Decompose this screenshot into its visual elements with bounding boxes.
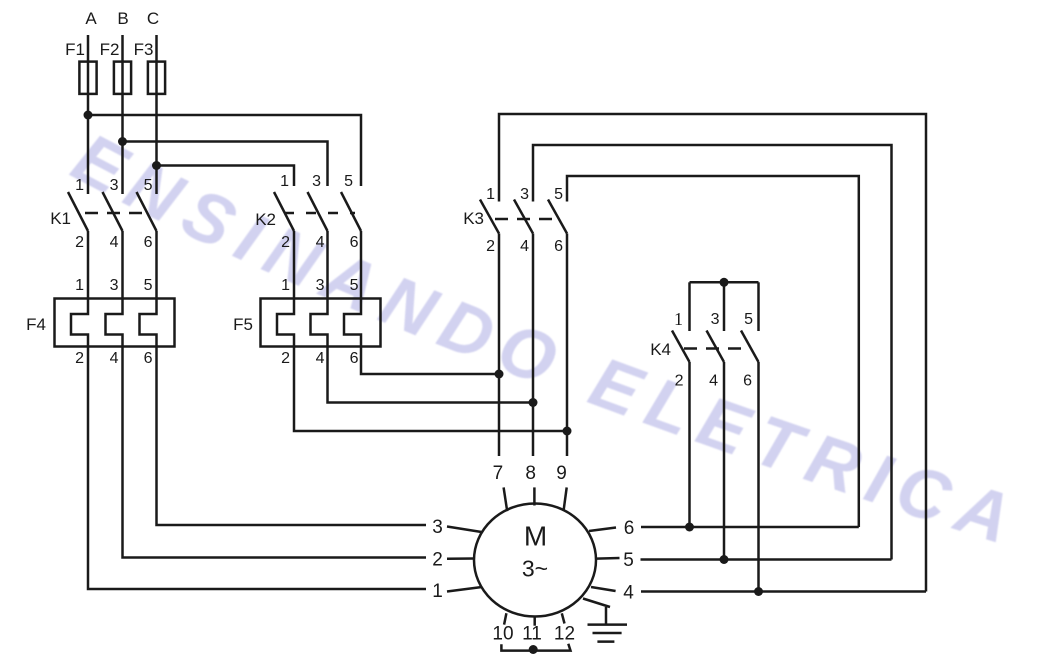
svg-text:F2: F2 — [100, 40, 120, 59]
svg-text:5: 5 — [144, 277, 153, 294]
svg-text:8: 8 — [525, 463, 536, 484]
motor terminal tick 5 — [597, 557, 620, 560]
svg-text:6: 6 — [554, 238, 563, 255]
F4 heater element pole 1 and wire to motor 1 — [71, 231, 426, 589]
wire phase C to K2 pin 1 — [157, 166, 295, 187]
motor terminal tick 11 — [533, 617, 536, 626]
K4 pin 5 stub — [757, 282, 760, 331]
contactor K4 top bar — [690, 281, 759, 284]
svg-text:7: 7 — [493, 463, 504, 484]
junction dot node 7 — [495, 370, 504, 379]
svg-text:C: C — [147, 9, 159, 28]
junction dot node 9 — [563, 427, 572, 436]
svg-text:3: 3 — [711, 311, 720, 328]
svg-text:K3: K3 — [463, 209, 484, 228]
phase line A — [87, 35, 90, 194]
wire K3 pin 5 to motor 6 via right side — [567, 176, 859, 527]
svg-text:1: 1 — [75, 277, 84, 294]
svg-text:2: 2 — [675, 373, 684, 390]
svg-text:K1: K1 — [50, 209, 71, 228]
wire K3 pin 3 to motor 5 via right side — [533, 145, 892, 560]
svg-text:2: 2 — [281, 234, 290, 251]
svg-text:3: 3 — [110, 277, 119, 294]
svg-text:2: 2 — [75, 234, 84, 251]
contactor K2 pole 2 blade — [308, 192, 328, 231]
svg-text:3: 3 — [312, 173, 321, 190]
svg-text:5: 5 — [144, 177, 153, 194]
contactor K2 pole 1 blade — [274, 192, 294, 231]
star bridge bracket terminals 10 11 12 — [501, 644, 570, 651]
svg-text:2: 2 — [281, 350, 290, 367]
fuse F3 — [148, 62, 165, 94]
junction dot motor 5 node — [720, 555, 729, 564]
contactor K1 pole 3 blade — [137, 192, 157, 231]
svg-text:2: 2 — [432, 550, 443, 571]
motor terminal tick 10 — [504, 613, 506, 624]
svg-text:10: 10 — [492, 624, 513, 645]
contactor K1 linkage dashed line — [85, 212, 148, 215]
svg-text:4: 4 — [709, 373, 718, 390]
junction dot motor 4 node — [754, 587, 763, 596]
svg-text:6: 6 — [144, 234, 153, 251]
motor terminal tick 2 — [447, 557, 474, 560]
contactor K3 pole 1 blade — [480, 200, 499, 234]
contactor K3 pole 3 blade — [548, 200, 567, 234]
junction dot phase B — [118, 137, 127, 146]
svg-text:K4: K4 — [650, 340, 671, 359]
svg-text:3: 3 — [520, 186, 529, 203]
junction dot phase A — [84, 111, 93, 120]
wire K4 pin 6 to motor 4 node — [757, 362, 760, 592]
contactor K4 pole 3 blade — [741, 331, 759, 363]
svg-text:2: 2 — [486, 238, 495, 255]
svg-text:1: 1 — [280, 173, 289, 190]
wire motor 5 to right riser — [641, 558, 892, 561]
svg-text:6: 6 — [624, 518, 635, 539]
svg-text:4: 4 — [110, 234, 119, 251]
motor terminal tick 12 — [562, 613, 565, 623]
thermal overload F5 box — [261, 299, 381, 347]
phase line B — [121, 35, 124, 194]
contactor K3 linkage dashed line — [495, 218, 559, 221]
F4 heater element pole 2 and wire to motor 2 — [106, 231, 427, 558]
svg-text:1: 1 — [281, 277, 290, 294]
wire K3 pin 1 to motor 4 via right side — [499, 114, 926, 592]
svg-text:5: 5 — [744, 311, 753, 328]
svg-text:3: 3 — [316, 277, 325, 294]
svg-text:1: 1 — [432, 581, 443, 602]
F5 heater element pole 2 and wire to node 8 — [311, 231, 534, 403]
svg-text:3: 3 — [432, 517, 443, 538]
contactor K2 linkage dashed line — [284, 212, 355, 215]
junction dot node 8 — [529, 398, 538, 407]
ground bar 2 — [593, 632, 622, 635]
fuse F2 — [114, 62, 131, 94]
contactor K1 pole 2 blade — [103, 192, 123, 231]
svg-text:1: 1 — [75, 177, 84, 194]
thermal overload F4 box — [55, 299, 175, 347]
svg-text:2: 2 — [75, 350, 84, 367]
svg-text:4: 4 — [623, 583, 634, 604]
svg-text:5: 5 — [344, 173, 353, 190]
contactor K1 pole 1 blade — [68, 192, 88, 231]
motor terminal tick 1 — [447, 587, 482, 592]
svg-text:5: 5 — [623, 550, 634, 571]
ground bar 1 — [588, 623, 628, 626]
F5 heater element pole 3 and wire to node 7 — [344, 231, 499, 374]
ground bar 3 — [597, 640, 614, 643]
svg-text:M: M — [524, 521, 547, 552]
svg-text:5: 5 — [350, 277, 359, 294]
svg-text:6: 6 — [350, 350, 359, 367]
fuse F1 — [79, 62, 96, 94]
ground tick from motor — [583, 599, 610, 608]
wire K4 pin 4 to motor 5 node — [723, 362, 726, 560]
junction dot star bridge — [529, 645, 538, 654]
F5 heater element pole 1 and wire to node 9 — [277, 231, 567, 431]
svg-text:11: 11 — [522, 624, 542, 645]
motor terminal tick 4 — [591, 587, 616, 591]
svg-text:F5: F5 — [233, 315, 253, 334]
svg-text:1: 1 — [674, 309, 683, 329]
svg-text:F1: F1 — [65, 40, 85, 59]
motor terminal tick 8 — [533, 487, 536, 505]
contactor K3 pole 2 blade — [514, 200, 533, 234]
svg-text:F4: F4 — [26, 315, 46, 334]
K4 pin 3 stub — [723, 282, 726, 331]
wire motor 4 to right riser — [641, 590, 926, 593]
junction dot phase C — [152, 161, 161, 170]
svg-text:6: 6 — [350, 234, 359, 251]
contactor K4 linkage dashed line — [684, 347, 750, 350]
svg-text:4: 4 — [316, 350, 325, 367]
wire phase B to K2 pin 3 — [123, 142, 328, 187]
svg-text:B: B — [117, 9, 128, 28]
motor terminal tick 9 — [564, 487, 567, 511]
svg-text:4: 4 — [520, 238, 529, 255]
svg-text:6: 6 — [743, 373, 752, 390]
wire K3 pin 4 to motor 8 — [532, 234, 535, 457]
wire K4 pin 2 to motor 6 node — [688, 362, 691, 527]
svg-text:A: A — [85, 9, 97, 28]
svg-text:1: 1 — [486, 186, 495, 203]
wire motor 6 to right riser — [641, 526, 859, 529]
wire K3 pin 2 to motor 7 — [498, 234, 501, 457]
svg-text:3~: 3~ — [522, 556, 548, 582]
motor terminal tick 6 — [589, 528, 616, 532]
K4 pin 1 stub — [688, 282, 691, 331]
svg-text:5: 5 — [554, 186, 563, 203]
wire K3 pin 6 to motor 9 — [566, 234, 569, 457]
motor M circle — [474, 504, 596, 617]
svg-text:3: 3 — [110, 177, 119, 194]
svg-text:6: 6 — [144, 350, 153, 367]
phase line C — [155, 35, 158, 194]
contactor K2 pole 3 blade — [341, 192, 361, 231]
ground stem — [605, 607, 608, 625]
junction dot K4 bar — [720, 278, 729, 287]
motor terminal tick 3 — [447, 527, 482, 533]
junction dot motor 6 node — [685, 523, 694, 532]
contactor K4 pole 2 blade — [707, 331, 725, 363]
svg-text:F3: F3 — [134, 40, 154, 59]
svg-text:9: 9 — [556, 463, 567, 484]
svg-text:4: 4 — [316, 234, 325, 251]
svg-text:12: 12 — [554, 624, 575, 645]
motor terminal tick 7 — [504, 487, 508, 511]
svg-text:K2: K2 — [255, 210, 276, 229]
watermark ENSINANDO ELETRICA — [60, 118, 1031, 562]
wire phase A to K2 pin 5 — [88, 115, 361, 186]
F4 heater element pole 3 and wire to motor 3 — [140, 231, 427, 525]
svg-text:4: 4 — [110, 350, 119, 367]
contactor K4 pole 1 blade — [672, 331, 690, 363]
